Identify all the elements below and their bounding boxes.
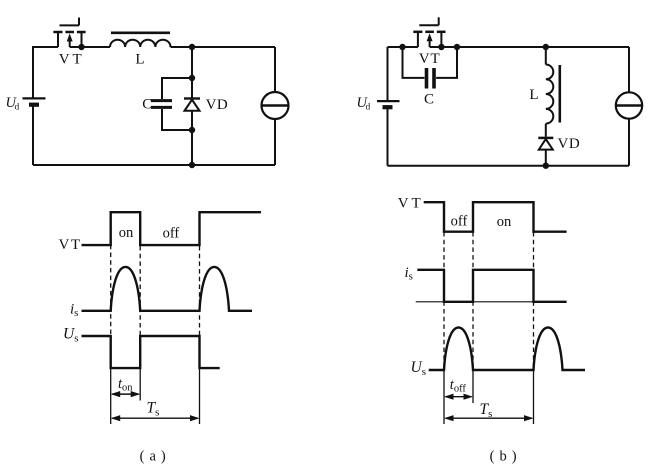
- annotation line below t2 (a): [139, 368, 141, 401]
- wire C-VD vertical lower (a): [191, 111, 193, 165]
- current source (b): [616, 92, 642, 118]
- wire capacitor branch (b): [403, 47, 458, 78]
- svg-text:VT: VT: [419, 51, 441, 67]
- wire below diode (b): [545, 150, 547, 166]
- svg-text:VD: VD: [206, 97, 229, 113]
- dashed timing line t3 (a): [199, 246, 201, 336]
- gate plate: [419, 24, 438, 26]
- diode VD (b): [538, 138, 553, 150]
- gate plate: [60, 24, 80, 26]
- svg-text:off: off: [163, 226, 180, 242]
- is waveform trace (b): [417, 270, 566, 302]
- voltage source Ud (a): [23, 98, 46, 104]
- wire C-VD vertical upper (a): [191, 47, 193, 98]
- wire top rail (b): [388, 46, 630, 48]
- Us waveform trace (b): [429, 328, 585, 371]
- wire right branch (a): [274, 47, 276, 165]
- core bar: [558, 65, 561, 123]
- svg-text:VT: VT: [59, 52, 85, 68]
- annotation line below t1 (a): [110, 368, 112, 424]
- voltage source Ud (b): [377, 101, 400, 107]
- svg-text:VT: VT: [59, 237, 82, 253]
- wire capacitor branch (a): [162, 78, 192, 130]
- annotation line below t2 (b): [472, 370, 474, 403]
- junction dot source VT (a): [78, 44, 84, 50]
- inductor L (b): [546, 47, 560, 137]
- VT waveform trace (a): [82, 212, 262, 245]
- body arrow: [69, 40, 71, 47]
- svg-text:off: off: [451, 214, 468, 230]
- wire L to right branch (a): [171, 46, 276, 48]
- svg-text:L: L: [529, 87, 538, 103]
- source lead: [440, 32, 442, 47]
- drain lead: [57, 32, 59, 47]
- annotation line below t3 (a): [199, 368, 201, 424]
- svg-text:VD: VD: [558, 136, 581, 152]
- wire bottom rail (b): [388, 165, 630, 167]
- svg-text:VT: VT: [398, 196, 424, 212]
- VT waveform trace (b): [424, 202, 567, 232]
- svg-text:(b): (b): [490, 449, 522, 465]
- dashed timing line t1 (b): [443, 232, 445, 370]
- capacitor C (a): [151, 101, 172, 108]
- svg-text:C: C: [142, 97, 152, 113]
- junction dot bottom (a): [189, 162, 195, 168]
- is waveform trace (a): [82, 267, 253, 311]
- dashed timing line t2 (a): [139, 246, 141, 336]
- wire right branch (b): [628, 47, 630, 166]
- svg-text:on: on: [119, 225, 134, 241]
- is zero axis (b): [416, 301, 565, 303]
- svg-text:(a): (a): [140, 449, 171, 465]
- wire VT to L (a): [70, 46, 110, 48]
- wire bottom rail (a): [33, 164, 275, 166]
- junction dot capacitor bottom (a): [189, 127, 195, 133]
- current source (a): [262, 92, 289, 119]
- svg-text:L: L: [135, 52, 144, 68]
- junction dot capacitor right (b): [454, 44, 460, 50]
- inductor L (a): [110, 33, 171, 47]
- annotation line below t3 (b): [533, 370, 535, 424]
- MOSFET VT (a): [53, 18, 85, 48]
- junction dot capacitor left (b): [399, 44, 405, 50]
- junction dot VT source (b): [438, 44, 444, 50]
- svg-text:C: C: [424, 92, 434, 108]
- source lead: [81, 32, 83, 47]
- toff arrow (b): [444, 394, 473, 400]
- channel dashes: [53, 31, 62, 34]
- gate riser: [438, 17, 440, 25]
- body arrow: [429, 40, 431, 47]
- Us waveform trace (a): [82, 336, 220, 368]
- diode VD (a): [184, 99, 200, 111]
- svg-text:on: on: [497, 214, 512, 230]
- ton arrow (a): [111, 391, 141, 397]
- channel dashes: [413, 31, 422, 34]
- dashed timing line t2 (b): [472, 232, 474, 370]
- Ts arrow (b): [444, 415, 534, 421]
- capacitor C (b): [427, 68, 435, 89]
- junction dot capacitor top (a): [189, 75, 195, 81]
- gate riser: [78, 18, 80, 26]
- Ts arrow (a): [111, 415, 200, 421]
- junction dot bottom of L-VD (b): [543, 163, 549, 169]
- annotation line below t1 (b): [443, 370, 445, 424]
- core bar: [111, 31, 170, 34]
- drain lead: [417, 32, 419, 47]
- dashed timing line t3 (b): [533, 232, 535, 370]
- node dot top of L-VD branch (b): [543, 44, 549, 50]
- wire left branch (a): [33, 47, 58, 165]
- MOSFET VT (b): [413, 17, 445, 47]
- wire left branch (b): [387, 47, 389, 166]
- node dot top of C-VD branch (a): [189, 44, 195, 50]
- dashed timing line t1 (a): [110, 214, 112, 336]
